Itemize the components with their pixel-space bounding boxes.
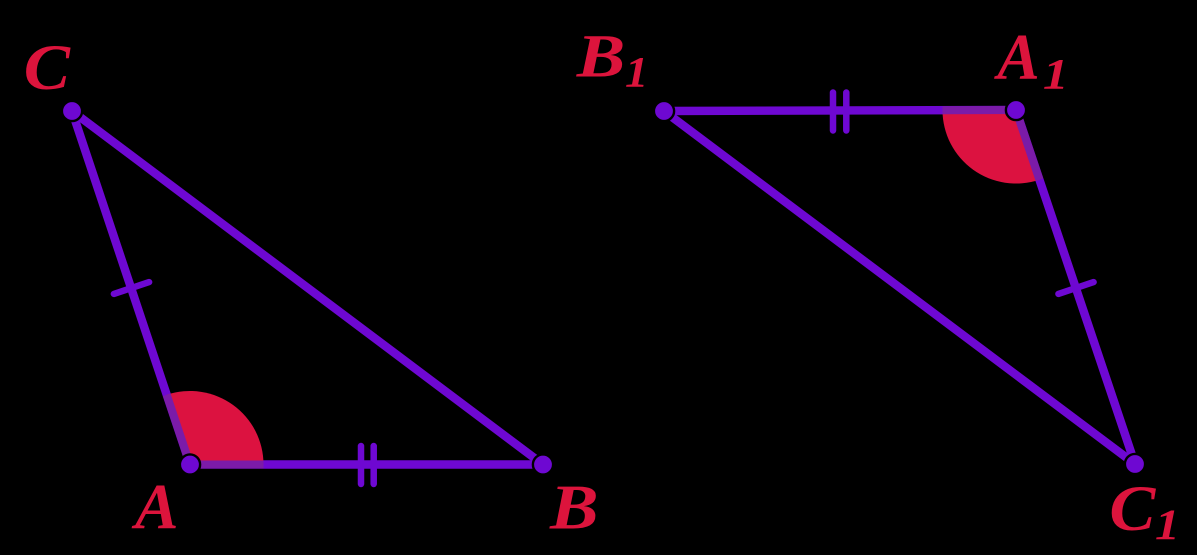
overlay ray A1 toward C1 inside angle marker [1016,110,1039,180]
wire: side CA of left triangle [72,111,190,465]
overlay ray A toward C inside angle marker [167,395,190,465]
vertex dot C1 [1125,454,1145,474]
overlay ray A toward B inside angle marker [190,461,264,469]
tick mark on CA [114,282,149,294]
svg-text:C: C [24,31,71,104]
svg-text:1: 1 [625,48,648,96]
tick mark on A1C1 [1058,282,1093,294]
wire: side B1A1 of right triangle [664,110,1016,111]
wire: side CB of left triangle [72,111,543,465]
svg-text:1: 1 [1155,501,1180,549]
svg-text:A: A [131,471,179,543]
vertex dot B1 [654,101,674,121]
vertex dot B [533,454,553,474]
svg-text:A: A [993,21,1039,93]
svg-text:B: B [549,472,599,543]
svg-text:B: B [576,22,626,90]
svg-text:1: 1 [1043,51,1069,99]
wire: side B1C1 of right triangle [664,111,1135,464]
double tick mark on AB [358,446,365,484]
double tick mark on B1A1 [830,93,837,131]
angle marker at A1 [943,110,1040,184]
vertex dot A [180,454,200,474]
vertex dot C [62,101,82,121]
overlay ray A1 toward B1 inside angle marker [943,106,1017,114]
angle marker at A [167,391,264,464]
wire: side A1C1 of right triangle [1016,110,1135,464]
vertex dot A1 [1006,100,1026,120]
svg-text:C: C [1109,473,1156,545]
wire: side AB of left triangle [190,460,543,468]
